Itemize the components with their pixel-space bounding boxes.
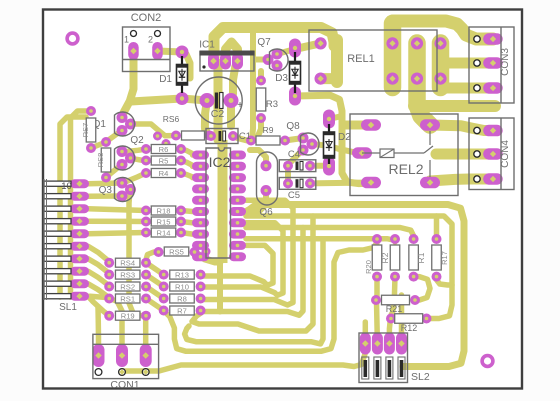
svg-text:R10: R10	[175, 283, 189, 292]
svg-text:C5: C5	[288, 190, 300, 201]
svg-text:R12: R12	[401, 323, 418, 333]
svg-text:RS2: RS2	[120, 283, 135, 292]
svg-text:CON3: CON3	[500, 48, 511, 76]
svg-text:R20: R20	[364, 260, 373, 274]
svg-text:RS5: RS5	[169, 248, 184, 257]
svg-text:R8: R8	[177, 295, 187, 304]
svg-text:IC1: IC1	[199, 40, 215, 51]
svg-text:RS7: RS7	[81, 123, 90, 138]
svg-text:R17: R17	[440, 251, 449, 265]
svg-text:R18: R18	[157, 207, 171, 216]
svg-text:Q6: Q6	[259, 207, 273, 218]
svg-text:R2: R2	[380, 252, 390, 263]
svg-text:R9: R9	[263, 125, 274, 135]
svg-text:SL2: SL2	[411, 371, 430, 383]
svg-text:2: 2	[148, 35, 153, 45]
svg-text:IC2: IC2	[209, 154, 231, 170]
svg-text:1: 1	[124, 35, 129, 45]
svg-text:R4: R4	[159, 169, 169, 178]
svg-text:D1: D1	[159, 74, 172, 85]
svg-text:+: +	[237, 100, 243, 111]
svg-text:R1: R1	[416, 252, 426, 263]
svg-text:R3: R3	[266, 99, 278, 110]
svg-text:CON1: CON1	[110, 379, 139, 391]
svg-text:Q3: Q3	[99, 185, 113, 196]
svg-text:R5: R5	[159, 157, 169, 166]
svg-text:RS8: RS8	[96, 153, 105, 168]
svg-text:REL1: REL1	[347, 53, 375, 65]
svg-text:RS3: RS3	[120, 271, 135, 280]
svg-text:R13: R13	[175, 271, 189, 280]
svg-text:R15: R15	[157, 218, 171, 227]
svg-text:R19: R19	[121, 312, 135, 321]
svg-text:Q7: Q7	[257, 37, 271, 48]
svg-text:R6: R6	[159, 145, 169, 154]
svg-text:C1: C1	[239, 131, 251, 142]
svg-text:RS6: RS6	[163, 114, 180, 124]
svg-text:Q2: Q2	[130, 135, 144, 146]
svg-text:CON4: CON4	[500, 140, 511, 168]
svg-text:Q8: Q8	[286, 121, 300, 132]
svg-text:10: 10	[61, 181, 72, 192]
svg-text:REL2: REL2	[388, 161, 423, 177]
svg-text:D2: D2	[338, 132, 351, 143]
svg-text:C2: C2	[211, 108, 225, 120]
svg-text:R7: R7	[177, 307, 187, 316]
svg-text:RS4: RS4	[120, 259, 135, 268]
svg-text:R21: R21	[386, 304, 403, 314]
svg-text:RS1: RS1	[120, 295, 135, 304]
svg-text:D3: D3	[275, 73, 288, 84]
svg-text:C4: C4	[288, 149, 300, 160]
svg-text:CON2: CON2	[131, 12, 162, 24]
svg-text:R14: R14	[157, 229, 171, 238]
svg-text:SL1: SL1	[59, 302, 77, 313]
